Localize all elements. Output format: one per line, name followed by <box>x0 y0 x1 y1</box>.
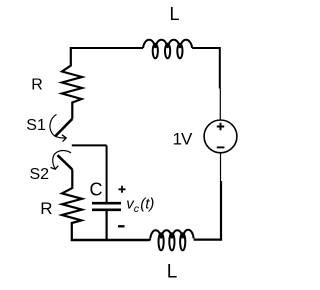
wire thin segment to source top <box>219 89 221 121</box>
voltage source V1 <box>204 120 237 153</box>
svg-text:S2: S2 <box>30 166 50 183</box>
svg-text:L: L <box>167 262 178 283</box>
resistor R1 (top left) <box>62 47 82 119</box>
svg-text:1V: 1V <box>173 130 193 149</box>
wire thin segment from source bottom <box>220 153 222 181</box>
switch S1 arrow <box>50 115 65 139</box>
capacitor C plates <box>92 203 121 210</box>
capacitor C bottom lead <box>105 211 107 241</box>
wire bottom (coil to left corner) <box>71 239 151 240</box>
resistor R2 (bottom left) <box>62 170 82 242</box>
switch S1 blade <box>55 119 72 137</box>
svg-text:L: L <box>170 4 180 24</box>
svg-text:R: R <box>40 199 52 218</box>
switch S2 arrow <box>53 151 71 169</box>
wire top-right + corner down <box>192 47 220 89</box>
switch S2 blade <box>58 155 73 169</box>
minus polarity mark <box>118 225 125 227</box>
svg-text:C: C <box>90 180 103 200</box>
svg-text:R: R <box>31 77 43 94</box>
wire mid horizontal (capacitor top node) <box>72 145 107 202</box>
inductor L2 (bottom) <box>150 230 193 251</box>
wire right-bottom + corner <box>194 181 223 241</box>
inductor L1 (top) <box>143 40 192 59</box>
wire top (left segment from top-left corner to inductor) <box>71 47 143 49</box>
plus polarity mark <box>119 186 126 193</box>
svg-text:S1: S1 <box>26 117 46 134</box>
svg-text:vc(t): vc(t) <box>126 196 154 215</box>
